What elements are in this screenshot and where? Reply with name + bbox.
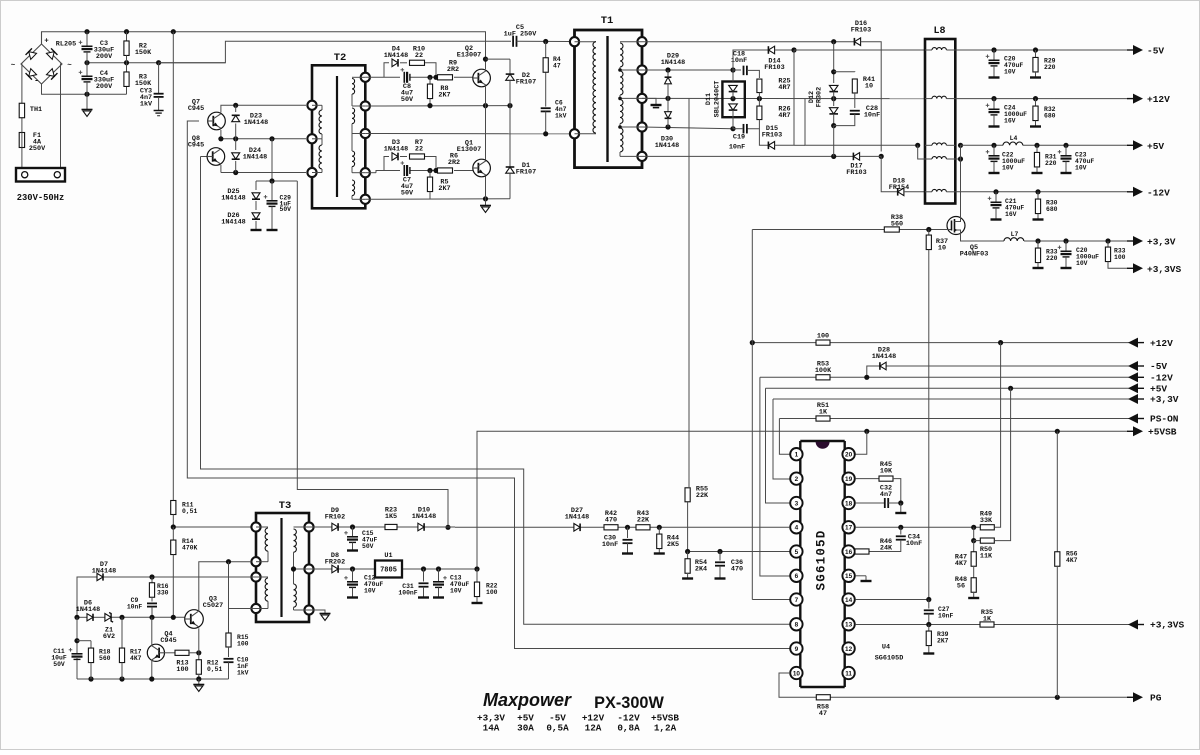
output arrow PG [1127, 692, 1162, 703]
resistor R56 4K7 [1055, 431, 1078, 697]
svg-text:E13007: E13007 [457, 146, 481, 154]
svg-text:1N4148: 1N4148 [412, 513, 436, 521]
svg-text:220: 220 [1044, 64, 1056, 71]
resistor R11 0,51 [171, 501, 198, 528]
svg-text:10nF: 10nF [602, 541, 618, 549]
svg-text:1N4148: 1N4148 [243, 153, 267, 161]
svg-text:0,5A: 0,5A [546, 723, 569, 734]
IC pins 1-10 [790, 448, 802, 679]
resistor R58 47 [816, 695, 830, 718]
svg-text:1kV: 1kV [140, 101, 153, 109]
svg-text:2K5: 2K5 [667, 541, 679, 549]
svg-text:SBL2040CT: SBL2040CT [714, 81, 722, 118]
svg-text:8: 8 [795, 622, 799, 629]
svg-text:FR102: FR102 [325, 513, 345, 521]
capacitor C22 1000uF 10V [986, 145, 1025, 173]
svg-text:T2: T2 [334, 52, 347, 64]
svg-text:SG6105D: SG6105D [815, 530, 829, 591]
svg-text:50V: 50V [53, 661, 65, 668]
svg-text:1N4148: 1N4148 [221, 218, 245, 226]
svg-text:330: 330 [157, 589, 169, 596]
svg-text:560: 560 [891, 220, 903, 228]
resistor R45 10K [879, 461, 901, 503]
resistor R16 330 [149, 577, 168, 602]
diode D2 FR107 [506, 59, 537, 106]
capacitor C11 10uF 50V [51, 648, 82, 668]
wire: Q3 base row (y=617.3) [74, 615, 185, 620]
wire: D8 row to U1 (y=569) [309, 566, 480, 571]
wire: bridge to TH1/F1 and mains connector [21, 64, 62, 168]
diode D15 FR103 [759, 125, 794, 149]
resistor R2 150K [124, 32, 152, 63]
capacitor C10 1nF 1kV [224, 657, 249, 680]
svg-text:U1: U1 [384, 552, 392, 560]
wire: +12V sense rail (y=342.6) [750, 340, 1131, 345]
diode D10 1N4148 [412, 507, 436, 531]
svg-text:17: 17 [845, 525, 853, 532]
svg-text:1N4148: 1N4148 [221, 194, 245, 202]
wire: +5V windings join right (x=960.5) [955, 143, 963, 217]
svg-text:22: 22 [415, 146, 423, 154]
capacitor C8 4u7 50V [401, 68, 415, 104]
wire: pin14 to C27 (y=599.5) [855, 597, 931, 602]
svg-text:7: 7 [795, 597, 799, 604]
diode D18 FR154 [881, 156, 925, 195]
svg-text:10V: 10V [1004, 68, 1016, 75]
svg-text:1N4148: 1N4148 [384, 52, 408, 60]
svg-text:220: 220 [1045, 160, 1057, 167]
resistor R26 4R7 [747, 99, 791, 129]
svg-text:10: 10 [865, 83, 873, 91]
capacitor C23 470uF 10V [1058, 145, 1095, 173]
svg-text:10K: 10K [880, 467, 893, 475]
svg-text:56: 56 [957, 582, 965, 590]
wire: Q8 emitter rail to T2 (y=172.5) [221, 165, 306, 175]
capacitor C31 100nF [398, 569, 429, 598]
resistor R35 1K [980, 609, 994, 627]
resistor R18 560 [88, 641, 110, 679]
resistor R47 4K7 [955, 541, 976, 571]
resistor R4 47 [543, 42, 561, 107]
svg-text:10V: 10V [1076, 260, 1088, 267]
svg-text:+5V: +5V [1147, 141, 1164, 152]
mains connector 230V-50Hz [16, 168, 65, 203]
svg-text:10V: 10V [1075, 164, 1087, 171]
svg-text:470: 470 [731, 565, 743, 573]
svg-text:-12V: -12V [1150, 373, 1173, 384]
svg-text:24K: 24K [880, 544, 893, 552]
svg-text:+3,3VS: +3,3VS [1150, 620, 1185, 631]
transistor Q7 C945 [188, 99, 225, 130]
earth ground (CY3) [154, 111, 164, 116]
svg-text:7805: 7805 [380, 567, 397, 575]
wire: pin4 rail (y=527.3) from T3 standby [445, 525, 789, 530]
svg-text:16V: 16V [1004, 117, 1016, 124]
svg-text:FR107: FR107 [516, 169, 536, 177]
svg-text:Maxpower: Maxpower [483, 690, 572, 710]
svg-text:200V: 200V [96, 53, 113, 61]
svg-text:+: + [44, 38, 49, 46]
svg-text:100: 100 [817, 333, 829, 341]
wire: Q4 collector to base row [151, 617, 153, 646]
table output ratings [477, 713, 679, 734]
transistor Q3 C5027 [185, 596, 224, 629]
wire: pin7 feed (x=752.3) [752, 230, 790, 600]
resistor R3 150K [124, 63, 152, 88]
resistor R33 100 [1105, 241, 1128, 268]
svg-text:-: - [34, 77, 39, 86]
svg-text:FR103: FR103 [762, 131, 782, 139]
svg-text:1: 1 [795, 452, 799, 459]
svg-text:+5VSB: +5VSB [1148, 427, 1177, 438]
svg-text:4R7: 4R7 [778, 84, 790, 92]
output arrow +3,3VS [1127, 263, 1182, 275]
wire: Q7 collector rail to T2 pin (y=105) [221, 103, 306, 113]
wire: gate drive rail R38 (y=229.5) [752, 227, 947, 232]
svg-text:4n7: 4n7 [880, 491, 892, 499]
svg-text:FR103: FR103 [846, 169, 866, 177]
svg-text:14: 14 [845, 597, 853, 604]
transistor Q4 C945 [147, 631, 176, 662]
resistor R30 680 [1033, 192, 1058, 220]
wire: Q3 collector to T3 (y=561.7) [199, 559, 252, 611]
svg-text:PX-300W: PX-300W [594, 694, 664, 712]
resistor R22 100 [472, 569, 498, 603]
svg-text:250V: 250V [29, 145, 46, 153]
svg-text:9: 9 [795, 646, 799, 653]
wire: T2 pin1 to Q2 base row (y=77.3) [365, 75, 473, 80]
wire: Q7 base to pin9 loop [187, 121, 790, 649]
resistor R15 100 [226, 633, 249, 657]
resistor R42 470 [604, 510, 618, 530]
svg-text:FR107: FR107 [516, 79, 536, 87]
svg-text:FR103: FR103 [764, 64, 784, 72]
wire: rail y=70 [642, 67, 736, 72]
resistor R38 560 [884, 214, 903, 232]
svg-text:0,51: 0,51 [182, 508, 198, 515]
capacitor C28 10nF [834, 105, 880, 126]
wire: +3,3VS sense rail (y=624.5) [855, 622, 1131, 627]
svg-text:100: 100 [486, 589, 498, 596]
svg-text:100: 100 [176, 666, 188, 674]
svg-text:2R2: 2R2 [447, 66, 459, 74]
svg-text:4: 4 [795, 525, 799, 532]
wire: C11/R18 column [74, 617, 91, 679]
wire: AC top rail from bridge + to high-voltage corner [42, 29, 486, 69]
svg-text:2K7: 2K7 [438, 185, 450, 193]
svg-text:L8: L8 [933, 26, 945, 37]
resistor R29 220 [1030, 50, 1056, 78]
svg-text:1N4148: 1N4148 [76, 606, 100, 614]
svg-text:P40NF03: P40NF03 [960, 250, 989, 258]
svg-text:-5V: -5V [1147, 46, 1164, 57]
svg-text:FR154: FR154 [889, 184, 909, 192]
diode D9 FR102 [325, 507, 345, 531]
wire: -5V output rail [955, 47, 1128, 52]
resistor R23 1K5 [385, 507, 397, 530]
diode D3 1N4148 [384, 139, 408, 171]
svg-text:SG6105D: SG6105D [875, 655, 904, 663]
svg-text:1K5: 1K5 [385, 513, 397, 521]
resistor R13 100 [175, 650, 189, 674]
diode D25 1N4148 [221, 181, 260, 210]
resistor R14 470K [171, 527, 198, 617]
capacitor C3 330uF 200V [79, 32, 115, 63]
svg-text:18: 18 [845, 500, 853, 507]
input arrow +3,3VS [1128, 620, 1185, 631]
transistor Q8 C945 [188, 135, 225, 165]
svg-text:C945: C945 [188, 142, 204, 150]
resistor R37 10 [926, 230, 948, 601]
svg-text:TH1: TH1 [30, 106, 42, 114]
wire: T1 primary bottom rail (y=133.8) [365, 131, 569, 136]
wire: +12V output rail [955, 96, 1128, 101]
svg-text:50V: 50V [362, 543, 374, 550]
output arrow -12V [1127, 187, 1170, 199]
resistor R54 2K4 [682, 552, 707, 579]
label U4 SG6105D [875, 644, 904, 663]
capacitor C27 10nF [924, 600, 954, 625]
transistor Q1 E13007 [457, 140, 491, 177]
capacitor C7 4u7 50V [401, 161, 415, 197]
resistor R31 220 [1032, 145, 1057, 173]
svg-text:T1: T1 [601, 15, 614, 27]
svg-text:10nF: 10nF [906, 540, 922, 548]
svg-text:FR202: FR202 [325, 558, 345, 566]
svg-text:10nF: 10nF [938, 612, 954, 619]
svg-text:12: 12 [845, 646, 853, 653]
svg-text:-5V: -5V [1150, 361, 1167, 372]
svg-text:11: 11 [845, 670, 852, 677]
wire: R54/C36 row to pin5 (y=551.5) [685, 549, 790, 554]
resistor R17 4K7 [119, 617, 141, 679]
capacitor C15 47uF 50V [344, 527, 377, 551]
wire: pin10 to R58 PG rail [779, 673, 1131, 700]
diode D17 FR103 [846, 153, 881, 177]
svg-text:560: 560 [99, 655, 111, 662]
svg-text:2K7: 2K7 [438, 91, 450, 99]
svg-text:30A: 30A [517, 723, 534, 734]
svg-text:2K7: 2K7 [937, 637, 949, 644]
wire: D14/D15 vertical link x=794 [793, 50, 795, 145]
ground (standby) [193, 679, 204, 692]
output arrow +3,3V [1127, 236, 1176, 248]
wire: +5V output rail [961, 143, 1129, 148]
wire: D30 junction down to R55 [688, 99, 690, 488]
wire: +5VSB to pin20 [855, 431, 867, 454]
svg-text:L4: L4 [1010, 135, 1018, 142]
ground (pin15) [855, 576, 871, 581]
input arrow -5V [1128, 361, 1167, 372]
capacitor C20 1000uF 10V [1058, 241, 1099, 268]
wire: Q4 base to R13 [165, 652, 176, 654]
IC U4 SG6105D body [800, 441, 844, 687]
resistor R49 33K [980, 343, 1001, 530]
capacitor C9 10nF [127, 597, 157, 617]
diode D26 1N4148 [221, 212, 261, 230]
svg-text:T3: T3 [279, 500, 292, 512]
diode D23 1N4148 [232, 105, 269, 139]
resistor R48 56 [955, 571, 979, 598]
output arrow +5V [1127, 140, 1164, 152]
wire: +5V rail jog x=805 [805, 99, 920, 148]
output arrow +5VSB [1127, 426, 1177, 437]
svg-text:~: ~ [67, 62, 72, 70]
svg-text:19: 19 [845, 476, 853, 483]
svg-text:50V: 50V [401, 96, 414, 104]
wire: clamp row y=181 (D25/C29/x297) [256, 139, 297, 184]
svg-text:680: 680 [1046, 206, 1058, 213]
resistor R51 1K [816, 402, 830, 421]
diode D6 1N4148 [76, 600, 100, 621]
capacitor C30 10nF [602, 527, 633, 553]
wire: T2 pin4 to Q1 base row (y=170.5) [365, 168, 473, 173]
svg-text:1K: 1K [819, 408, 828, 416]
IC pins 11-20 [842, 448, 854, 679]
svg-text:1N4148: 1N4148 [92, 567, 116, 575]
wire: bridge negative bottom rail [42, 84, 127, 97]
wire: Q4 emitter to bottom rail [151, 660, 153, 679]
title PX-300W [594, 694, 664, 712]
resistor R25 4R7 [757, 78, 791, 99]
svg-text:230V-50Hz: 230V-50Hz [17, 193, 65, 203]
svg-text:10V: 10V [450, 587, 462, 594]
input arrow +3,3V [1128, 394, 1179, 405]
wire: -12V output rail [955, 189, 1128, 194]
svg-text:100nF: 100nF [398, 589, 417, 596]
capacitor C20 470uF 10V [986, 50, 1024, 78]
capacitor C6 4n7 1kV [541, 100, 567, 134]
wire: L8 +5V winding pair link (x=917.7) [918, 145, 925, 159]
bridge rectifier RL205 [11, 32, 76, 86]
svg-text:470K: 470K [182, 544, 198, 551]
svg-text:50V: 50V [401, 189, 414, 197]
svg-text:+5V: +5V [1150, 384, 1167, 395]
svg-text:22: 22 [415, 52, 423, 60]
wire: midpoint jog to C5 rail (y=41.3) [159, 41, 511, 62]
svg-text:150K: 150K [135, 49, 152, 57]
dual schottky D11 SBL2040CT [705, 70, 745, 129]
svg-text:200V: 200V [96, 83, 113, 91]
svg-text:+3,3V: +3,3V [1147, 237, 1176, 248]
wire: Q2 collector from HV rail [483, 57, 510, 106]
ground (primary bulk) [82, 94, 93, 116]
resistor R10 22 [410, 46, 439, 80]
wire: rail y=156.4 to D17 [642, 154, 884, 159]
capacitor C32 4n7 [855, 485, 906, 514]
svg-text:+3,3V: +3,3V [1150, 394, 1179, 405]
wire: HV rail down to R11 (x=173) [172, 32, 174, 500]
diode D29 1N4148 [661, 53, 685, 99]
wire: R11/R14 node to T3 pin1 [171, 524, 252, 529]
wire: center rail y=98.4 (+12V secondary) [642, 96, 925, 101]
svg-text:47: 47 [553, 62, 561, 69]
capacitor C13 470uF 10V [433, 569, 469, 598]
svg-text:1kV: 1kV [555, 112, 567, 119]
inductor L7 [1004, 231, 1024, 241]
diode D27 1N4148 [565, 507, 589, 531]
capacitor C12 470uF 10V [344, 569, 383, 598]
diode D28 1N4148 (D12 top feed) [831, 42, 836, 83]
wire: +5V sense rail (y=388.3) to pin3 [766, 386, 1132, 503]
svg-text:1N4148: 1N4148 [661, 59, 685, 67]
resistor R55 22K [685, 486, 709, 552]
svg-text:4K7: 4K7 [1066, 557, 1078, 564]
capacitor C24 1000uF 16V [986, 99, 1027, 127]
svg-text:C945: C945 [188, 105, 204, 113]
svg-text:2K4: 2K4 [695, 565, 707, 573]
capacitor C21 470uF 16V [988, 192, 1025, 220]
svg-text:100: 100 [1114, 254, 1126, 261]
resistor R8 2K7 [427, 77, 450, 105]
capacitor C4 330uF 200V [79, 63, 115, 94]
resistor R32 680 [1030, 99, 1056, 127]
diode D14 FR103 [733, 46, 797, 72]
resistor R46 24K [855, 538, 893, 554]
svg-text:100: 100 [237, 640, 249, 647]
svg-text:-12V: -12V [1147, 187, 1170, 198]
svg-text:22K: 22K [637, 516, 650, 524]
fuse F1 4A 250V [19, 132, 46, 153]
svg-text:470: 470 [605, 516, 617, 524]
diode D7 1N4148 [92, 561, 116, 581]
resistor R43 22K [636, 510, 650, 530]
wire: +3,3V sense rail (y=399) to pin2 [773, 399, 1131, 479]
svg-text:1N4148: 1N4148 [872, 353, 896, 361]
svg-text:4R7: 4R7 [778, 112, 790, 120]
capacitor CY3 4n7 1kV [140, 63, 164, 110]
svg-text:+12V: +12V [1150, 338, 1173, 349]
svg-text:PG: PG [1150, 693, 1162, 704]
input arrow +12V [1128, 338, 1173, 349]
diode D28 1N4148 [872, 347, 896, 370]
svg-text:D11: D11 [705, 93, 713, 105]
svg-text:100K: 100K [815, 367, 832, 375]
svg-text:PS-ON: PS-ON [1150, 414, 1179, 425]
svg-text:10: 10 [938, 244, 946, 252]
svg-text:11K: 11K [980, 552, 993, 560]
wire: -5V secondary rail y=50 to L8 [794, 49, 925, 51]
capacitor C34 10nF [869, 527, 922, 551]
resistor R50 11K [971, 388, 1010, 560]
resistor R33 220 [1033, 241, 1058, 268]
wire: Q8 base to pin8 loop [201, 157, 790, 625]
capacitor C18 10nF [731, 51, 760, 79]
inductor L8 (common output choke) [925, 26, 955, 204]
svg-text:220: 220 [1046, 255, 1058, 262]
ground (T1 center tap) [642, 98, 662, 107]
svg-text:1N4148: 1N4148 [565, 513, 589, 521]
svg-text:1,2A: 1,2A [654, 723, 677, 734]
svg-text:16V: 16V [1005, 211, 1017, 218]
svg-text:10nF: 10nF [729, 143, 745, 151]
capacitor C36 470 [715, 552, 744, 579]
svg-text:~: ~ [11, 62, 16, 70]
wire: -12V sense rail (y=377.3) [760, 375, 1131, 576]
svg-text:6V2: 6V2 [103, 633, 115, 641]
transformer T2 [307, 52, 370, 208]
resistor R6 2R2 [438, 153, 461, 174]
resistor R5 2K7 [427, 171, 450, 199]
svg-text:4K7: 4K7 [955, 560, 967, 568]
capacitor C19 10nF [729, 124, 747, 151]
wire: Q1 collector to midpoint [485, 106, 487, 160]
svg-text:3: 3 [795, 500, 799, 507]
svg-text:6: 6 [795, 573, 799, 580]
diode D24 1N4148 [232, 139, 268, 173]
resistor R44 2K5 [654, 527, 679, 553]
wire: snubber column x=228.5 [229, 562, 257, 633]
